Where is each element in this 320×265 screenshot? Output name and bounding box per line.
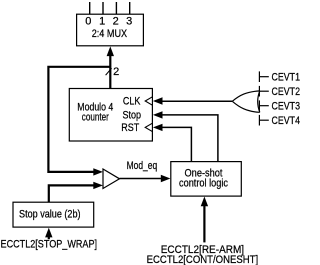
CEVT4 tick bbox=[258, 115, 260, 126]
svg-text:CEVT3: CEVT3 bbox=[272, 101, 301, 113]
stop value box bbox=[13, 202, 94, 227]
CEVT2 wire bbox=[259, 90, 268, 92]
svg-text:0: 0 bbox=[85, 15, 91, 27]
svg-text:3: 3 bbox=[126, 15, 132, 27]
CEVT4 wire bbox=[259, 119, 268, 121]
bus width slash bbox=[106, 68, 112, 75]
CEVT1 tick bbox=[258, 71, 260, 82]
counter box bbox=[69, 89, 152, 142]
svg-text:1: 1 bbox=[99, 15, 105, 27]
svg-text:2: 2 bbox=[113, 66, 119, 78]
wire CLK from OR gate bbox=[162, 100, 233, 102]
svg-text:RST: RST bbox=[121, 122, 139, 134]
svg-text:control logic: control logic bbox=[179, 178, 228, 190]
svg-text:Mod_eq: Mod_eq bbox=[127, 160, 158, 172]
wire counter to mux bus bbox=[109, 55, 111, 89]
clock wedge RST bbox=[145, 123, 152, 131]
mux 2:4 box bbox=[77, 14, 144, 46]
CEVT3 tick bbox=[258, 100, 260, 111]
svg-text:Stop: Stop bbox=[123, 109, 142, 121]
wire ECCTL2[STOP_WRAP] input bbox=[48, 236, 50, 239]
comparator bbox=[103, 169, 120, 189]
wire mux output 1 bbox=[102, 2, 104, 14]
svg-text:ECCTL2[CONT/ONESHT]: ECCTL2[CONT/ONESHT] bbox=[147, 254, 259, 265]
svg-text:CEVT4: CEVT4 bbox=[272, 115, 301, 127]
svg-text:counter: counter bbox=[82, 111, 109, 123]
arrowhead into RST bbox=[153, 124, 163, 131]
wire RST from one-shot bbox=[162, 127, 192, 161]
svg-text:CEVT2: CEVT2 bbox=[272, 86, 301, 98]
wire branch to comparator top input bbox=[48, 67, 110, 172]
or-gate U2 bbox=[232, 91, 259, 112]
svg-text:CLK: CLK bbox=[123, 95, 141, 107]
one-shot control logic box bbox=[171, 162, 242, 197]
wire mux output 0 bbox=[89, 2, 91, 14]
arrowhead into Stop bbox=[153, 111, 163, 118]
wire mux output 2 bbox=[115, 2, 117, 14]
wire Stop from one-shot bbox=[162, 115, 218, 162]
wire stop value to comparator bottom input bbox=[49, 185, 94, 202]
svg-text:2:4 MUX: 2:4 MUX bbox=[92, 28, 128, 40]
CEVT1 wire bbox=[259, 76, 268, 78]
wire mux output 3 bbox=[129, 2, 131, 14]
arrowhead into CLK bbox=[153, 97, 163, 104]
wire one-shot bottom input bbox=[203, 205, 205, 242]
clock wedge CLK bbox=[145, 97, 152, 105]
svg-text:ECCTL2[STOP_WRAP]: ECCTL2[STOP_WRAP] bbox=[1, 239, 98, 251]
CEVT3 wire bbox=[259, 105, 268, 107]
svg-text:CEVT1: CEVT1 bbox=[272, 72, 301, 84]
svg-text:Stop value (2b): Stop value (2b) bbox=[19, 209, 81, 221]
CEVT2 tick bbox=[258, 86, 260, 97]
svg-text:2: 2 bbox=[113, 15, 119, 27]
wire Mod_eq bbox=[120, 178, 162, 180]
